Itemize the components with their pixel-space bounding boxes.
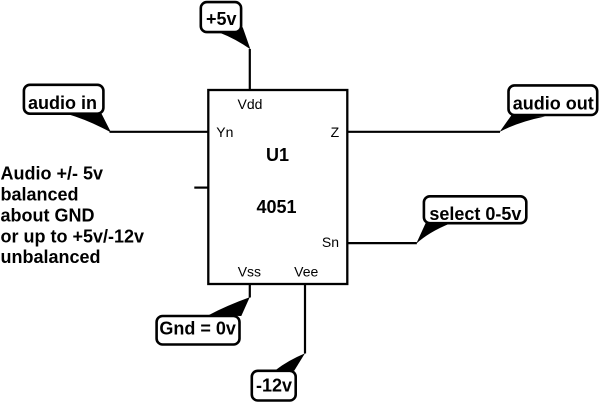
svg-text:unbalanced: unbalanced <box>1 247 101 267</box>
wire stub left <box>194 187 208 189</box>
note text block <box>1 164 145 268</box>
svg-text:Z: Z <box>331 124 340 140</box>
svg-text:Sn: Sn <box>322 234 339 250</box>
svg-text:about GND: about GND <box>1 205 95 225</box>
svg-text:Vss: Vss <box>238 264 261 280</box>
wire Vss ground <box>249 284 251 298</box>
svg-text:select 0-5v: select 0-5v <box>429 204 521 224</box>
callout +5v <box>201 2 251 49</box>
callout audio in <box>24 85 111 133</box>
wire Sn select <box>347 242 417 244</box>
svg-text:Yn: Yn <box>216 124 233 140</box>
callout audio out <box>500 85 598 131</box>
callout select 0-5v <box>416 196 526 243</box>
wire Yn input <box>110 131 209 133</box>
svg-text:U1: U1 <box>266 145 289 165</box>
svg-text:audio in: audio in <box>28 93 97 113</box>
svg-text:balanced: balanced <box>1 185 79 205</box>
wire Vee supply <box>304 284 306 354</box>
callout Gnd = 0v <box>157 297 250 344</box>
svg-text:+5v: +5v <box>206 9 237 29</box>
wire Vdd supply <box>249 49 251 90</box>
svg-text:or up to +5v/-12v: or up to +5v/-12v <box>1 226 145 246</box>
svg-text:Audio +/- 5v: Audio +/- 5v <box>1 164 104 184</box>
wire Z output <box>347 131 500 133</box>
svg-text:audio out: audio out <box>513 94 594 114</box>
svg-text:-12v: -12v <box>256 376 292 396</box>
IC U1 body <box>208 90 347 284</box>
svg-text:Gnd = 0v: Gnd = 0v <box>159 319 236 339</box>
callout -12v <box>252 353 305 400</box>
svg-text:Vdd: Vdd <box>238 96 263 112</box>
svg-text:Vee: Vee <box>294 264 318 280</box>
svg-text:4051: 4051 <box>256 197 296 217</box>
